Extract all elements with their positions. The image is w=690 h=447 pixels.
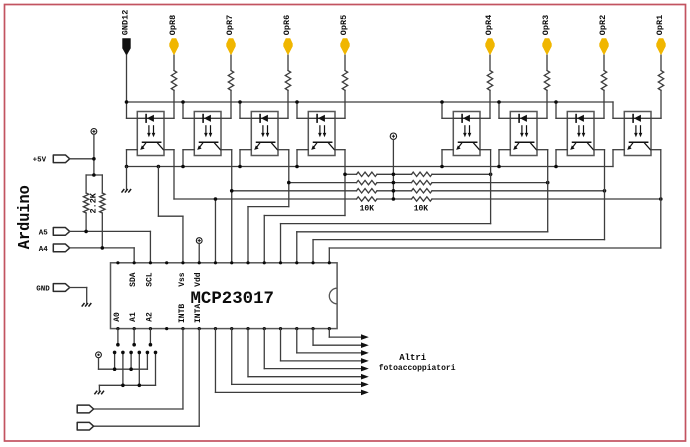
wire OK1 collector	[164, 150, 174, 199]
resistor 10K row4 left	[357, 197, 378, 201]
wire OK1 emitter to ground rail	[127, 150, 138, 167]
wire OpR3 to resistor	[546, 55, 548, 70]
resistor R5 (OpR5 series)	[342, 71, 347, 91]
label A5	[39, 229, 49, 237]
svg-text:+5V: +5V	[33, 156, 47, 164]
pin label INTA	[194, 304, 203, 323]
svg-text:INTB: INTB	[178, 304, 187, 323]
optocoupler OK1 (LED + phototransistor)	[137, 112, 164, 156]
wire OK3 stair to MCP pin9	[248, 207, 289, 263]
svg-text:A5: A5	[39, 229, 49, 237]
resistor R7 (OpR7 series)	[228, 71, 233, 91]
svg-text:2.2K: 2.2K	[89, 192, 99, 213]
wire MCP pin10 to arrow	[264, 329, 361, 369]
resistor R2 (OpR2 series)	[601, 71, 606, 91]
wire row3 right segment	[432, 190, 605, 192]
optocoupler OK6 (LED + phototransistor)	[510, 112, 537, 156]
wire MCP pin9 to arrow	[248, 329, 362, 377]
wire MCP pin14 to arrow	[329, 329, 361, 338]
wire cathode drop to LED4	[297, 102, 308, 118]
node +5V tag	[53, 155, 69, 163]
wire A4 to SDA	[70, 248, 134, 263]
svg-text:OpR6: OpR6	[282, 15, 292, 35]
resistor 10K row2 right	[412, 180, 433, 184]
wire row1 left segment	[345, 173, 357, 175]
ground symbol (rail)	[122, 189, 132, 193]
junction dots ground rail	[125, 165, 558, 169]
label +5V	[33, 156, 47, 164]
pin label SDA	[129, 272, 138, 287]
wire row2 right segment	[432, 182, 548, 184]
pin label A2	[145, 312, 154, 322]
wire address select stubs	[113, 351, 158, 386]
wire row1 right segment	[432, 173, 491, 175]
svg-text:INTA: INTA	[194, 304, 203, 323]
wire OK5 collector	[480, 150, 491, 224]
wire MCP A1 stub	[132, 329, 136, 347]
svg-text:Arduino: Arduino	[15, 185, 34, 249]
resistor R4 (OpR4 series)	[487, 71, 492, 91]
resistor 10K row1 right	[412, 172, 433, 176]
wire OpR3 resistor to LED6 anode	[537, 90, 547, 118]
optocoupler OK3 (LED + phototransistor)	[251, 112, 278, 156]
junction dots pullup rows	[214, 173, 663, 201]
wire MCP pin7 to arrow	[215, 329, 361, 393]
svg-text:GND12: GND12	[121, 10, 131, 36]
resistor 10K row4 right	[412, 197, 433, 201]
resistor 2.2K left (SCL pullup)	[83, 175, 88, 231]
node arrow GPA2	[361, 350, 369, 356]
svg-text:OpR8: OpR8	[168, 15, 178, 35]
label MCP23017	[191, 290, 275, 309]
wire OpR6 resistor to LED3 anode	[278, 90, 288, 118]
node A4 tag	[53, 244, 69, 252]
wire OK5 emitter to ground rail	[442, 150, 453, 167]
wire row3 left segment	[232, 190, 357, 192]
power +5V address symbol	[96, 352, 102, 358]
wire OK6 emitter to ground rail	[499, 150, 510, 167]
wire OpR8 resistor to LED1 anode	[164, 90, 174, 118]
wire OK6 stair to MCP pin12	[297, 232, 548, 263]
power +5V Vdd symbol	[196, 238, 202, 244]
wire ground to Vss	[158, 167, 183, 263]
resistor 10K row3 left	[357, 189, 378, 193]
wire address ground bus	[99, 384, 155, 391]
wire OpR1 to resistor	[660, 55, 662, 70]
optocoupler OK5 (LED + phototransistor)	[453, 112, 480, 156]
wire MCP A0 stub	[116, 329, 120, 347]
wire OK3 emitter to ground rail	[240, 150, 251, 167]
node arrow GPA5	[361, 374, 369, 380]
svg-text:fotoaccoppiatori: fotoaccoppiatori	[379, 364, 456, 373]
pin label INTB	[178, 304, 187, 323]
wire ground rail to ground	[126, 167, 128, 190]
wire cathode drop to LED2	[183, 102, 194, 118]
wire OpR2 resistor to LED7 anode	[594, 90, 604, 118]
svg-text:OpR1: OpR1	[655, 15, 665, 35]
pin label A0	[113, 312, 122, 322]
wire OpR2 to resistor	[603, 55, 605, 70]
wire OpR7 to resistor	[230, 55, 232, 70]
wire OK6 collector	[537, 150, 548, 232]
wire pin7 drop from row4	[214, 199, 216, 263]
wire MCP pin12 to arrow	[297, 329, 362, 353]
node OpR3 connector	[541, 15, 552, 56]
wire OpR6 to resistor	[287, 55, 289, 70]
wire OK2 emitter to ground rail	[183, 150, 194, 167]
svg-text:Vdd: Vdd	[194, 272, 203, 287]
value label 10K left	[360, 205, 375, 214]
wire OK8 collector	[651, 150, 661, 248]
wire INTA to tag	[94, 329, 200, 427]
junction dots cathode rail	[125, 100, 558, 104]
wire cathode drop to LED5	[442, 102, 453, 118]
wire INTB to tag	[94, 329, 183, 409]
node arrow GPA0	[361, 334, 369, 340]
wire cathode drop to LED3	[240, 102, 251, 118]
node OpR4 connector	[484, 15, 495, 56]
wire cathode drop to LED8	[613, 102, 624, 118]
pin label Vdd	[194, 272, 203, 287]
wire OpR4 to resistor	[489, 55, 491, 70]
node OpR7 connector	[225, 15, 236, 56]
wire OpR5 to resistor	[344, 55, 346, 70]
resistor 10K row1 left	[357, 172, 378, 176]
wire A5 to SCL	[70, 231, 151, 262]
pin label A1	[129, 312, 138, 322]
svg-text:OpR3: OpR3	[541, 15, 551, 35]
wire OK3 collector	[278, 150, 289, 207]
wire MCP A2 stub	[149, 329, 153, 347]
wire OpR5 resistor to LED4 anode	[335, 90, 345, 118]
optocoupler OK4 (LED + phototransistor)	[308, 112, 335, 156]
wire OK4 stair to MCP pin10	[264, 216, 345, 263]
ground symbol (GND tag)	[82, 303, 92, 307]
wire OK7 collector	[594, 150, 605, 240]
optocoupler OK8 (LED + phototransistor)	[624, 112, 651, 156]
wire ground rail	[127, 166, 614, 168]
svg-text:OpR7: OpR7	[225, 15, 235, 35]
wire row4 left segment	[174, 198, 357, 200]
resistor 2.2K right (SDA pullup)	[100, 175, 105, 248]
resistor R6 (OpR6 series)	[285, 71, 290, 91]
svg-text:SDA: SDA	[129, 272, 138, 287]
wire OK4 collector	[335, 150, 345, 216]
node OpR1 connector	[655, 15, 666, 56]
optocoupler OK2 (LED + phototransistor)	[194, 112, 221, 156]
value label 2.2K	[89, 192, 99, 213]
node GND tag	[53, 284, 69, 292]
junction dot A5/2.2K	[84, 230, 88, 234]
wire row2 middle	[377, 182, 412, 184]
wire row4 right segment	[432, 198, 661, 200]
junction dot +5V	[92, 157, 96, 177]
wire GND tag to ground	[70, 288, 87, 304]
svg-text:Altri: Altri	[399, 353, 427, 363]
svg-text:SCL: SCL	[145, 272, 154, 287]
wire MCP pin11 to arrow	[281, 329, 362, 361]
wire +5V vertical	[86, 134, 102, 175]
svg-text:A4: A4	[39, 246, 49, 254]
node arrow GPA3	[361, 358, 369, 364]
svg-text:OpR2: OpR2	[598, 15, 608, 35]
resistor R1 (OpR1 series)	[658, 71, 663, 91]
svg-text:Vss: Vss	[178, 272, 187, 287]
op-amp U1 MCP23017 body	[111, 263, 338, 329]
wire OpR4 resistor to LED5 anode	[480, 90, 490, 118]
power +5V pullup symbol	[390, 133, 396, 139]
wire OK2 collector to MCP pin8	[221, 150, 232, 263]
power +5V symbol (left)	[91, 129, 97, 135]
node OpR5 connector	[339, 15, 350, 56]
node arrow GPA6	[361, 382, 369, 388]
resistor 10K row2 left	[357, 180, 378, 184]
svg-text:OpR4: OpR4	[484, 15, 494, 35]
label fotoaccoppiatori	[379, 364, 456, 373]
svg-text:GND: GND	[36, 285, 50, 293]
wire row3 middle	[377, 190, 412, 192]
wire OpR8 to resistor	[173, 55, 175, 70]
node arrow GPA4	[361, 366, 369, 372]
node OpR6 connector	[282, 15, 293, 56]
label GND	[36, 285, 50, 293]
wire Vdd	[198, 244, 200, 263]
wire OpR7 resistor to LED2 anode	[221, 90, 231, 118]
wire cathode drop to LED7	[556, 102, 567, 118]
node GND12 connector	[121, 10, 131, 56]
node INTB tag	[77, 405, 93, 413]
node INTA tag	[77, 422, 93, 430]
svg-text:A0: A0	[113, 312, 122, 322]
svg-text:OpR5: OpR5	[339, 15, 349, 35]
wire +5V tag to pullups	[70, 158, 94, 160]
label Altri	[399, 353, 427, 363]
node arrow GPA7	[361, 390, 369, 396]
wire cathode drop to LED6	[499, 102, 510, 118]
wire row4 middle	[377, 198, 412, 200]
wire OK5 stair to MCP pin11	[281, 224, 491, 263]
wire row2 left segment	[289, 182, 357, 184]
pin label SCL	[145, 272, 154, 287]
svg-text:10K: 10K	[414, 205, 429, 214]
label A4	[39, 246, 49, 254]
junction dot A4/2.2K	[101, 246, 105, 250]
node OpR8 connector	[168, 15, 179, 56]
node arrow GPA1	[361, 342, 369, 348]
wire address +5V bus	[99, 358, 148, 371]
ground symbol (address)	[94, 391, 104, 395]
wire OK4 emitter to ground rail	[297, 150, 308, 167]
node A5 tag	[53, 228, 69, 236]
svg-text:A2: A2	[145, 312, 154, 322]
wire OK7 emitter to ground rail	[556, 150, 567, 167]
node OpR2 connector	[598, 15, 609, 56]
resistor R3 (OpR3 series)	[544, 71, 549, 91]
label Arduino	[15, 185, 34, 249]
wire OpR1 resistor to LED8 anode	[651, 90, 661, 118]
wire GND12 vertical to LED1 cathode	[127, 55, 138, 118]
wire OK7 stair to MCP pin13	[313, 240, 604, 263]
wire OK8 emitter to ground rail	[613, 150, 624, 167]
wire row1 middle	[377, 173, 412, 175]
wire OK8 stair to MCP pin14	[329, 248, 660, 263]
junction dots MCP bottom pins	[116, 327, 331, 330]
optocoupler OK7 (LED + phototransistor)	[567, 112, 594, 156]
junction dots MCP top pins	[116, 261, 331, 264]
pin label Vss	[178, 272, 187, 287]
resistor 10K row3 right	[412, 189, 433, 193]
wire cathode rail GND12	[127, 101, 614, 103]
svg-text:10K: 10K	[360, 205, 375, 214]
value label 10K right	[414, 205, 429, 214]
svg-text:A1: A1	[129, 312, 138, 322]
wire MCP pin8 to arrow	[232, 329, 362, 385]
wire MCP pin13 to arrow	[313, 329, 361, 346]
wire +5V to pullup rows	[392, 139, 394, 199]
resistor R8 (OpR8 series)	[171, 71, 176, 91]
